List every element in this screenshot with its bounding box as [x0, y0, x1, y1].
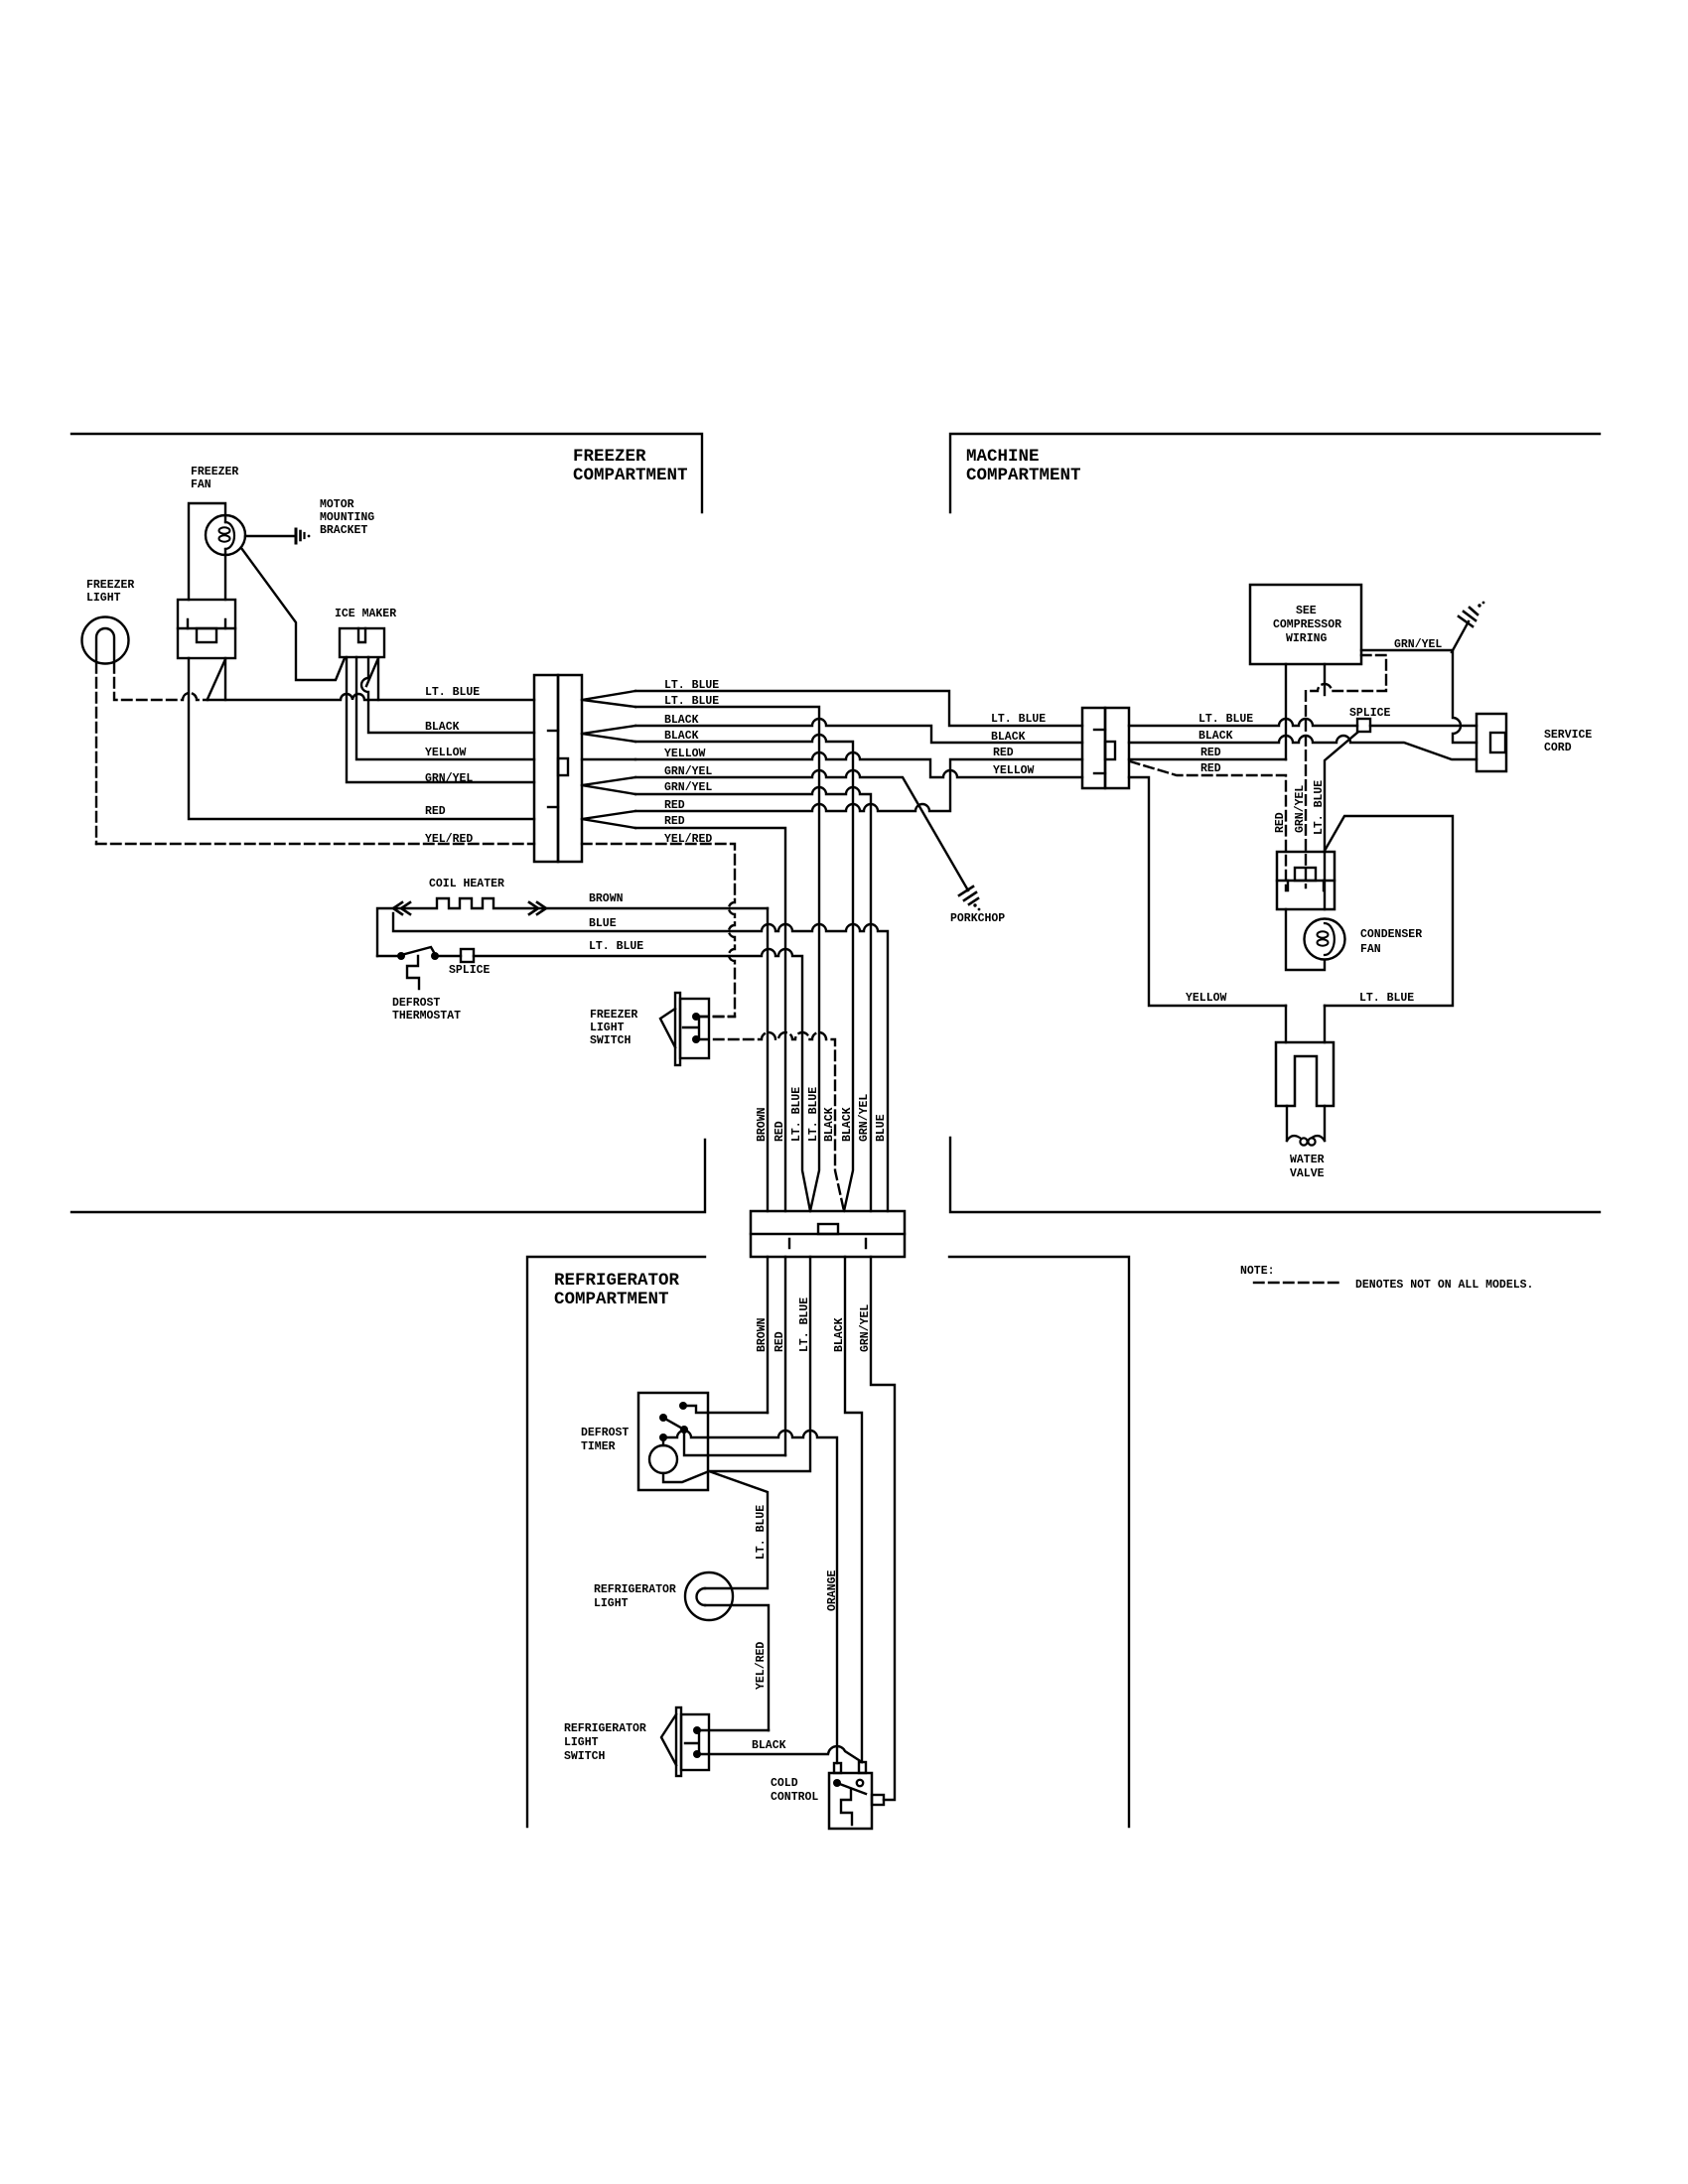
svg-text:FREEZER: FREEZER	[590, 1009, 637, 1022]
wire motor to lt.blue	[663, 1471, 768, 1588]
freezer fan connector	[178, 600, 235, 658]
svg-text:BLACK: BLACK	[833, 1317, 846, 1352]
svg-text:LT. BLUE: LT. BLUE	[1198, 713, 1253, 726]
cold control contacts	[833, 1779, 841, 1787]
fork pin4 grn/yel pair	[582, 777, 635, 794]
defrost timer arm	[663, 1418, 684, 1430]
svg-text:LT. BLUE: LT. BLUE	[1313, 780, 1326, 835]
relay overload	[1277, 852, 1335, 909]
wire grn/yel to porkchop	[635, 770, 968, 890]
wire ice maker pin2 yellow	[356, 657, 534, 759]
defrost timer contact 1	[679, 1402, 687, 1410]
cold control capillary	[841, 1789, 852, 1825]
wire lt.blue 2 down	[635, 707, 819, 1211]
svg-text:LT. BLUE: LT. BLUE	[1359, 992, 1414, 1005]
svg-text:VALVE: VALVE	[1290, 1167, 1325, 1180]
refrigerator compartment border left	[527, 1257, 705, 1827]
fork pin2 black pair	[582, 726, 635, 742]
svg-text:BLACK: BLACK	[841, 1107, 854, 1142]
svg-text:BLACK: BLACK	[991, 731, 1026, 744]
wire lt.blue to machine	[635, 691, 1082, 726]
cold control side stub	[872, 1795, 884, 1805]
coil heater arrows right	[529, 902, 546, 914]
wire ice maker pin4 diagonal	[366, 658, 378, 686]
grn/yel ground	[1452, 621, 1469, 652]
wire black to machine	[635, 719, 1082, 743]
wire lt.blue to splice	[1129, 719, 1357, 726]
splice square	[1357, 719, 1370, 732]
refrigerator compartment border right	[949, 1257, 1129, 1827]
wire light to lt.blue	[705, 1605, 769, 1730]
svg-text:DEFROST: DEFROST	[581, 1427, 629, 1439]
svg-text:BLACK: BLACK	[1198, 730, 1233, 743]
svg-text:MOTOR: MOTOR	[320, 498, 354, 511]
svg-text:LIGHT: LIGHT	[86, 592, 121, 605]
water valve body	[1276, 1042, 1334, 1106]
svg-text:RED: RED	[774, 1331, 786, 1352]
svg-text:BROWN: BROWN	[756, 1317, 769, 1352]
freezer fan motor coil	[225, 522, 234, 549]
SECTION-FRIDGE	[564, 1393, 884, 1829]
defrost timer contact 3	[680, 1426, 688, 1433]
fork pin3 yellow	[582, 758, 635, 760]
svg-text:COMPARTMENT: COMPARTMENT	[573, 466, 688, 485]
svg-text:COMPRESSOR: COMPRESSOR	[1273, 618, 1341, 631]
coil heater arrows left	[393, 902, 410, 914]
coil heater element	[377, 898, 768, 956]
freezer fan motor	[206, 515, 245, 555]
wire brown down	[767, 908, 769, 1211]
svg-text:COMPARTMENT: COMPARTMENT	[554, 1290, 669, 1309]
SECTION-BUS	[709, 1087, 905, 1800]
cold control pins	[834, 1763, 841, 1773]
wire diagonal pin to dashed	[208, 659, 225, 699]
wire fan top loop	[189, 503, 225, 600]
svg-text:SWITCH: SWITCH	[590, 1034, 632, 1047]
wire grn/yel to ground	[1361, 650, 1477, 743]
defrost timer contact 4	[659, 1433, 667, 1441]
svg-text:GRN/YEL: GRN/YEL	[1294, 785, 1307, 833]
wire red 1 to machine	[635, 759, 1082, 811]
refrigerator light switch	[676, 1707, 681, 1776]
svg-text:LIGHT: LIGHT	[594, 1597, 629, 1610]
svg-text:CONDENSER: CONDENSER	[1360, 928, 1422, 941]
wire ice maker pin4 lt.blue drop	[377, 658, 379, 700]
svg-text:FREEZER: FREEZER	[573, 447, 646, 467]
condenser fan	[1305, 919, 1345, 960]
wire red dashed	[1130, 761, 1286, 890]
machine compartment border	[950, 434, 1600, 512]
svg-text:BROWN: BROWN	[589, 892, 624, 905]
svg-text:LT. BLUE: LT. BLUE	[589, 940, 643, 953]
svg-text:CONTROL: CONTROL	[771, 1791, 818, 1804]
wire fan connector right pin	[224, 658, 226, 700]
see compressor wiring box	[1250, 585, 1361, 664]
svg-text:GRN/YEL: GRN/YEL	[1394, 638, 1442, 651]
wire freezer light left dashed	[95, 663, 97, 844]
wire grn-yel dashed from compressor	[1306, 655, 1386, 887]
svg-text:DENOTES NOT ON ALL MODELS.: DENOTES NOT ON ALL MODELS.	[1355, 1279, 1533, 1292]
wire brown into timer	[683, 1406, 768, 1413]
freezer light switch	[675, 993, 680, 1065]
svg-text:RED: RED	[1200, 747, 1221, 759]
svg-text:GRN/YEL: GRN/YEL	[859, 1304, 872, 1352]
svg-text:RED: RED	[425, 805, 446, 818]
wire ice maker pin1 grn/yel	[347, 657, 534, 782]
svg-text:RED: RED	[1274, 812, 1287, 833]
refrigerator connector	[751, 1211, 905, 1257]
freezer light filament	[96, 628, 114, 661]
wire yellow down	[1129, 777, 1286, 1006]
svg-text:YELLOW: YELLOW	[993, 764, 1035, 777]
defrost thermostat	[377, 955, 397, 957]
svg-text:LIGHT: LIGHT	[564, 1736, 599, 1749]
svg-text:MACHINE: MACHINE	[966, 447, 1040, 467]
svg-text:ORANGE: ORANGE	[826, 1570, 839, 1611]
freezer connector	[534, 675, 558, 862]
svg-text:COMPARTMENT: COMPARTMENT	[966, 466, 1081, 485]
wire black below connector	[845, 1257, 862, 1762]
svg-text:LT. BLUE: LT. BLUE	[790, 1087, 803, 1142]
svg-text:MOUNTING: MOUNTING	[320, 511, 374, 524]
wire orange from timer	[663, 1431, 837, 1763]
wire lt.blue below connector	[709, 1257, 810, 1471]
svg-text:COIL HEATER: COIL HEATER	[429, 878, 504, 890]
svg-text:SEE: SEE	[1296, 605, 1317, 617]
svg-text:GRN/YEL: GRN/YEL	[425, 772, 473, 785]
service cord connector	[1477, 714, 1506, 771]
svg-text:FREEZER: FREEZER	[191, 466, 238, 478]
svg-text:SPLICE: SPLICE	[1349, 707, 1391, 720]
freezer compartment border	[71, 434, 702, 512]
svg-text:LT. BLUE: LT. BLUE	[798, 1297, 811, 1352]
wire yellow to machine	[635, 752, 1082, 777]
svg-text:WATER: WATER	[1290, 1154, 1325, 1166]
wire relay to condenser loop	[1286, 909, 1325, 970]
svg-text:PORKCHOP: PORKCHOP	[950, 912, 1005, 925]
svg-text:COLD: COLD	[771, 1777, 798, 1790]
svg-text:GRN/YEL: GRN/YEL	[664, 781, 712, 794]
svg-text:FREEZER: FREEZER	[86, 579, 134, 592]
compressor red vertical	[1285, 664, 1287, 759]
wire fan bottom	[224, 549, 226, 600]
refrigerator light filament	[697, 1588, 706, 1605]
svg-text:YEL/RED: YEL/RED	[755, 1642, 768, 1690]
svg-text:DEFROST: DEFROST	[392, 997, 440, 1010]
svg-text:THERMOSTAT: THERMOSTAT	[392, 1010, 461, 1023]
cold control body	[829, 1773, 872, 1829]
svg-text:LT. BLUE: LT. BLUE	[807, 1087, 820, 1142]
wire red below connector	[784, 1257, 786, 1455]
splice square	[461, 949, 474, 962]
wire fan connector left pin RED	[189, 658, 534, 819]
wire lt.blue coil	[439, 949, 810, 1211]
svg-text:RED: RED	[774, 1121, 786, 1142]
wire red to compressor	[1129, 758, 1286, 760]
porkchop ground	[959, 887, 978, 904]
wire yel/red to switch	[699, 1729, 769, 1731]
svg-text:FAN: FAN	[191, 478, 211, 491]
svg-text:YELLOW: YELLOW	[1186, 992, 1227, 1005]
defrost timer box	[638, 1393, 708, 1490]
svg-text:LIGHT: LIGHT	[590, 1022, 625, 1034]
wire switch bottom dashed black	[699, 1032, 844, 1211]
wire YEL/RED dashed left	[96, 843, 534, 845]
wire blue coil	[393, 913, 888, 1211]
svg-text:RED: RED	[664, 815, 685, 828]
defrost timer motor	[649, 1445, 677, 1473]
svg-text:BLACK: BLACK	[752, 1739, 786, 1752]
svg-text:LT. BLUE: LT. BLUE	[991, 713, 1046, 726]
wire switch top dashed	[699, 1016, 735, 1018]
svg-text:BLUE: BLUE	[589, 917, 617, 930]
wire fan to ice maker diagonal	[241, 548, 345, 680]
wire lt.blue splice to service cord	[1370, 725, 1477, 727]
machine compartment border bottom	[950, 1138, 1600, 1212]
wire grn/yel 2 down	[635, 787, 871, 1211]
svg-text:TIMER: TIMER	[581, 1440, 616, 1453]
defrost thermostat tail	[407, 956, 419, 989]
svg-text:BRACKET: BRACKET	[320, 524, 367, 537]
wire red 2 down	[635, 828, 785, 1211]
wire yel/red dashed right	[582, 844, 735, 1017]
ice maker body	[340, 628, 384, 657]
wire brown below connector	[767, 1257, 769, 1413]
svg-text:REFRIGERATOR: REFRIGERATOR	[554, 1271, 680, 1291]
svg-text:LT. BLUE: LT. BLUE	[755, 1505, 768, 1560]
svg-text:SWITCH: SWITCH	[564, 1750, 606, 1763]
wire LT. BLUE freezer bus	[208, 694, 534, 700]
wire ice maker pin3 black with loop	[361, 657, 534, 733]
freezer compartment border bottom	[71, 1140, 705, 1212]
water valve legs top	[1286, 1006, 1325, 1042]
svg-text:SPLICE: SPLICE	[449, 964, 491, 977]
freezer light bulb	[82, 617, 129, 664]
svg-text:REFRIGERATOR: REFRIGERATOR	[564, 1722, 646, 1735]
water valve coil	[1287, 1136, 1325, 1141]
wire black 2 down	[635, 735, 853, 1211]
fork pin5 red pair	[582, 811, 635, 828]
defrost timer contact 2	[659, 1414, 667, 1422]
SECTION-MACHINE	[991, 585, 1592, 1180]
wire grn/yel below connector	[871, 1257, 895, 1800]
svg-text:BLACK: BLACK	[425, 721, 460, 734]
svg-text:SERVICE: SERVICE	[1544, 729, 1592, 742]
svg-text:BLACK: BLACK	[823, 1107, 836, 1142]
svg-text:RED: RED	[1200, 762, 1221, 775]
svg-text:NOTE:: NOTE:	[1240, 1265, 1275, 1278]
wire lt.blue to right loop	[1325, 816, 1453, 1006]
SECTION-BORDERS	[71, 434, 1600, 1827]
motor mounting bracket symbol	[245, 535, 294, 537]
svg-text:YELLOW: YELLOW	[425, 747, 467, 759]
svg-text:LT. BLUE: LT. BLUE	[425, 686, 480, 699]
fork pin1 lt.blue pair	[582, 691, 635, 707]
SECTION-FREEZER	[82, 466, 1083, 1211]
wire black to service cord	[1129, 736, 1477, 759]
machine connector	[1082, 708, 1105, 788]
svg-text:CORD: CORD	[1544, 742, 1572, 754]
wire splice diagonal lt.blue down	[1325, 733, 1357, 909]
svg-text:GRN/YEL: GRN/YEL	[858, 1094, 871, 1142]
refrigerator light bulb	[685, 1572, 733, 1620]
compressor lt.blue stub	[1324, 664, 1326, 695]
wire freezer light right dashed	[114, 663, 208, 700]
svg-text:FAN: FAN	[1360, 943, 1381, 956]
svg-text:REFRIGERATOR: REFRIGERATOR	[594, 1583, 676, 1596]
note dashed sample	[1254, 1282, 1342, 1284]
svg-text:ICE MAKER: ICE MAKER	[335, 608, 396, 620]
wire black switch to cold control	[699, 1746, 862, 1762]
svg-text:RED: RED	[993, 747, 1014, 759]
wire red into timer	[684, 1430, 785, 1455]
water valve legs bottom	[1287, 1106, 1325, 1141]
svg-text:BLUE: BLUE	[875, 1114, 888, 1142]
svg-text:BROWN: BROWN	[756, 1107, 769, 1142]
svg-text:WIRING: WIRING	[1286, 632, 1328, 645]
